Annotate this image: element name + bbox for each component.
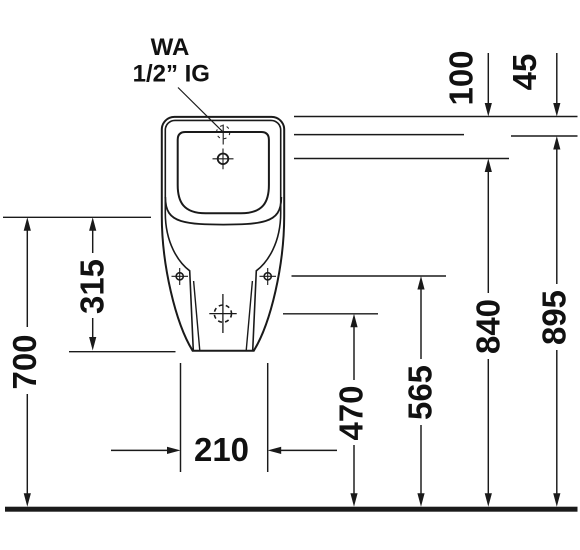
svg-text:840: 840 xyxy=(470,299,507,354)
svg-text:100: 100 xyxy=(443,50,480,105)
svg-text:1/2” IG: 1/2” IG xyxy=(133,61,210,88)
svg-text:45: 45 xyxy=(506,54,543,91)
svg-text:700: 700 xyxy=(6,334,43,389)
svg-text:210: 210 xyxy=(194,431,249,468)
svg-text:895: 895 xyxy=(536,290,573,345)
svg-text:565: 565 xyxy=(402,365,439,420)
svg-text:WA: WA xyxy=(151,34,190,61)
svg-text:315: 315 xyxy=(74,259,111,314)
svg-text:470: 470 xyxy=(333,385,370,440)
